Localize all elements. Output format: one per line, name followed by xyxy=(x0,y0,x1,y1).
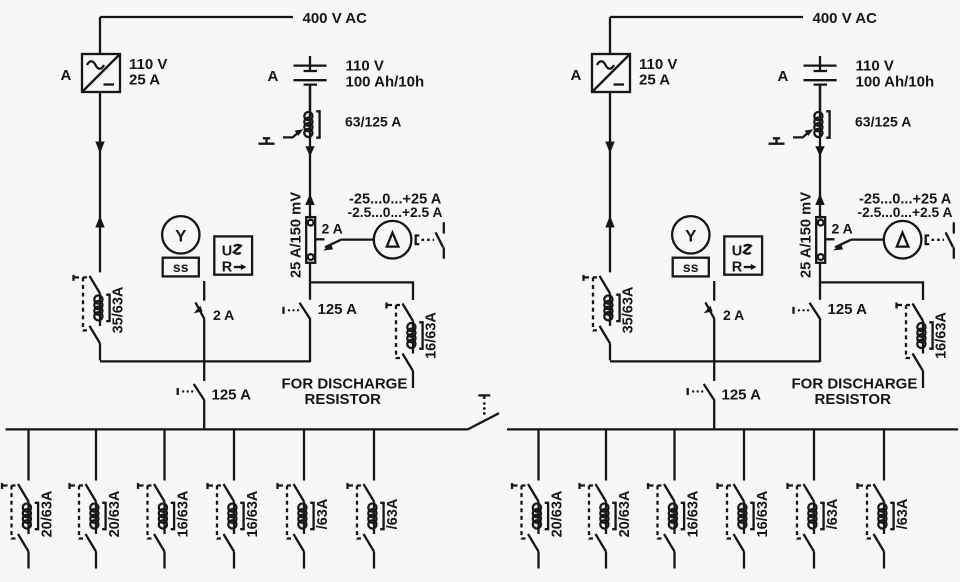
svg-text:125 A: 125 A xyxy=(212,387,252,404)
wire: 2A switch to link (R) xyxy=(713,318,715,362)
svg-text:ss: ss xyxy=(683,259,699,275)
wire: rectifier branch down (L) xyxy=(99,92,101,272)
battery A 110V (L) xyxy=(294,56,327,112)
svg-text:125 A: 125 A xyxy=(318,301,358,318)
wire: tee to discharge resistor branch (R) xyxy=(820,282,923,300)
rectifier charger A (L) xyxy=(82,54,120,92)
svg-text:100 Ah/10h: 100 Ah/10h xyxy=(346,74,425,91)
meter Y (L) xyxy=(162,216,199,253)
svg-text:16/63A: 16/63A xyxy=(424,312,440,359)
svg-text:R: R xyxy=(732,260,743,276)
trip arrow of 63/125A breaker (L) xyxy=(283,129,303,137)
svg-text:-2.5...0...+2.5 A: -2.5...0...+2.5 A xyxy=(858,205,953,220)
relay box U R (R) xyxy=(724,236,762,274)
wire: feeder 1 drop (L) xyxy=(27,429,29,481)
feeder breaker 4 16/63A (L) xyxy=(208,483,244,569)
arrow up above shunt (L) xyxy=(305,194,314,206)
feeder breaker 3 16/63A (R) xyxy=(648,483,684,569)
svg-text:A: A xyxy=(571,67,582,84)
feeder breaker 5 /63A (R) xyxy=(788,483,824,569)
wire: rectifier branch down (R) xyxy=(609,92,611,272)
aux contact at ammeter (L) xyxy=(416,222,444,258)
svg-text:400 V AC: 400 V AC xyxy=(303,10,368,27)
svg-text:/63A: /63A xyxy=(825,498,841,529)
svg-text:63/125 A: 63/125 A xyxy=(855,114,911,130)
svg-text:A: A xyxy=(61,67,72,84)
svg-text:20/63A: 20/63A xyxy=(617,490,633,537)
svg-text:/63A: /63A xyxy=(385,498,401,529)
feeder breaker 1 20/63A (L) xyxy=(2,483,38,569)
svg-text:20/63A: 20/63A xyxy=(40,490,56,537)
busbar left xyxy=(6,428,468,430)
svg-text:2 A: 2 A xyxy=(723,307,744,323)
svg-text:U: U xyxy=(732,244,742,260)
svg-text:R: R xyxy=(222,260,233,276)
circuit breaker 63/125 A (L) xyxy=(304,111,319,137)
svg-text:110 V: 110 V xyxy=(856,58,894,75)
circuit breaker 16/63A discharge (L) xyxy=(387,303,423,389)
wire: 2A switch to link (L) xyxy=(203,318,205,362)
arrow down on rectifier branch (L) xyxy=(95,142,104,154)
wire: horizontal link (R) xyxy=(610,360,820,362)
wire: feeder 4 drop (L) xyxy=(233,429,235,481)
svg-text:Y: Y xyxy=(685,226,697,245)
wire: feeder 5 drop (L) xyxy=(303,429,305,481)
aux contact at ammeter (R) xyxy=(926,222,954,258)
svg-text:25 A: 25 A xyxy=(129,72,160,89)
svg-text:110 V: 110 V xyxy=(639,56,677,73)
feeder breaker 2 20/63A (R) xyxy=(580,483,616,569)
svg-text:110 V: 110 V xyxy=(129,56,167,73)
feeder breaker 2 20/63A (L) xyxy=(70,483,106,569)
feeder breaker 6 /63A (R) xyxy=(858,483,894,569)
wire: battery branch to link (L) xyxy=(309,318,311,362)
wire: tee to discharge resistor branch (L) xyxy=(310,282,413,300)
wire to ammeter (L) xyxy=(341,238,373,240)
circuit breaker 63/125 A (R) xyxy=(814,111,829,137)
svg-text:16/63A: 16/63A xyxy=(934,312,950,359)
feeder breaker 1 20/63A (R) xyxy=(512,483,548,569)
manual handle of 63/125A breaker (L) xyxy=(259,138,275,143)
svg-text:/63A: /63A xyxy=(895,498,911,529)
wire: below shunt (R) xyxy=(819,263,821,300)
arrow up above shunt (R) xyxy=(815,194,824,206)
wire: feeder 3 drop (R) xyxy=(673,429,675,481)
svg-text:2 A: 2 A xyxy=(322,221,343,237)
wire: feeder 1 drop (R) xyxy=(537,429,539,481)
svg-text:2 A: 2 A xyxy=(213,307,234,323)
wire: 400V AC feed top (R) xyxy=(610,17,803,54)
wire: feeder 6 drop (R) xyxy=(883,429,885,481)
wire: relay drop (R) xyxy=(713,281,715,301)
fuse switch 2 A vertical (L) xyxy=(194,302,205,318)
arrow down below 63/125A (L) xyxy=(305,146,314,156)
wire: switch to bus (L) xyxy=(203,400,205,429)
feeder breaker 3 16/63A (L) xyxy=(138,483,174,569)
svg-text:16/63A: 16/63A xyxy=(755,490,771,537)
arrow down below 63/125A (R) xyxy=(815,146,824,156)
wire: battery branch to link (R) xyxy=(819,318,821,362)
wire: feeder 2 drop (L) xyxy=(95,429,97,481)
wire: battery branch down (L) xyxy=(309,84,311,217)
svg-text:16/63A: 16/63A xyxy=(245,490,261,537)
feeder breaker 6 /63A (L) xyxy=(348,483,384,569)
wire: feeder 4 drop (R) xyxy=(743,429,745,481)
arrow down on rectifier branch (R) xyxy=(605,142,614,154)
svg-text:16/63A: 16/63A xyxy=(176,490,192,537)
wire: 400V AC feed top (L) xyxy=(100,17,293,54)
wire: switch to bus (R) xyxy=(713,400,715,429)
svg-text:125 A: 125 A xyxy=(828,301,868,318)
arrow up on rectifier branch (R) xyxy=(605,216,614,228)
shunt 25 A / 150 mV (L) xyxy=(306,217,315,263)
trip arrow of 63/125A breaker (R) xyxy=(793,129,813,137)
circuit breaker 35/63A (R) xyxy=(584,275,620,361)
wire: horizontal link (L) xyxy=(100,360,310,362)
bus tie switch xyxy=(467,413,499,429)
svg-text:20/63A: 20/63A xyxy=(107,490,123,537)
busbar right xyxy=(507,428,958,430)
bus tie handle xyxy=(478,395,490,415)
feeder breaker 4 16/63A (R) xyxy=(718,483,754,569)
manual handle of 63/125A breaker (R) xyxy=(769,138,785,143)
circuit breaker 16/63A discharge (R) xyxy=(897,303,933,389)
svg-text:FOR DISCHARGE: FOR DISCHARGE xyxy=(282,376,408,393)
svg-text:25 A: 25 A xyxy=(639,72,670,89)
circuit breaker 35/63A (L) xyxy=(74,275,110,361)
wire: link to bus switch (L) xyxy=(203,361,205,381)
wire: shunt tap to ammeter (L) xyxy=(315,238,324,240)
ammeter (delta) (L) xyxy=(374,221,412,259)
svg-text:25 A/150 mV: 25 A/150 mV xyxy=(289,192,305,278)
fuse switch 2 A vertical (R) xyxy=(704,302,715,318)
disconnect switch 125 A battery branch (R) xyxy=(794,303,821,319)
svg-text:RESISTOR: RESISTOR xyxy=(815,391,892,408)
wire: feeder 3 drop (L) xyxy=(163,429,165,481)
meter Y (R) xyxy=(672,216,709,253)
wire: battery branch down (R) xyxy=(819,84,821,217)
feeder breaker 5 /63A (L) xyxy=(278,483,314,569)
wire: feeder 2 drop (R) xyxy=(605,429,607,481)
wire: feeder 6 drop (L) xyxy=(373,429,375,481)
svg-text:35/63A: 35/63A xyxy=(111,286,127,333)
svg-text:A: A xyxy=(268,68,279,85)
fuse switch 2 A (shunt tap) (R) xyxy=(833,240,851,251)
wire: relay drop (L) xyxy=(203,281,205,301)
rectifier charger A (R) xyxy=(592,54,630,92)
svg-text:Y: Y xyxy=(175,226,187,245)
svg-text:FOR DISCHARGE: FOR DISCHARGE xyxy=(792,376,918,393)
svg-text:63/125 A: 63/125 A xyxy=(345,114,401,130)
svg-text:16/63A: 16/63A xyxy=(686,490,702,537)
svg-text:RESISTOR: RESISTOR xyxy=(305,391,382,408)
svg-text:25 A/150 mV: 25 A/150 mV xyxy=(799,192,815,278)
box ss (R) xyxy=(673,258,709,277)
svg-text:20/63A: 20/63A xyxy=(550,490,566,537)
ammeter (delta) (R) xyxy=(884,221,922,259)
svg-text:400 V AC: 400 V AC xyxy=(813,10,878,27)
svg-text:A: A xyxy=(778,68,789,85)
disconnect switch 125 A bus infeed (R) xyxy=(688,384,715,400)
svg-text:ss: ss xyxy=(173,259,189,275)
svg-text:2 A: 2 A xyxy=(832,221,853,237)
svg-text:-2.5...0...+2.5 A: -2.5...0...+2.5 A xyxy=(348,205,443,220)
wire: below shunt (L) xyxy=(309,263,311,300)
arrow up on rectifier branch (L) xyxy=(95,216,104,228)
shunt 25 A / 150 mV (R) xyxy=(816,217,825,263)
box ss (L) xyxy=(163,258,199,277)
svg-text:/63A: /63A xyxy=(315,498,331,529)
fuse switch 2 A (shunt tap) (L) xyxy=(323,240,341,251)
wire: link to bus switch (R) xyxy=(713,361,715,381)
svg-text:125 A: 125 A xyxy=(722,387,762,404)
disconnect switch 125 A bus infeed (L) xyxy=(178,384,205,400)
wire: shunt tap to ammeter (R) xyxy=(825,238,834,240)
svg-text:110 V: 110 V xyxy=(346,58,384,75)
wire: feeder 5 drop (R) xyxy=(813,429,815,481)
svg-text:100 Ah/10h: 100 Ah/10h xyxy=(856,74,935,91)
svg-text:35/63A: 35/63A xyxy=(621,286,637,333)
relay box U R (L) xyxy=(214,236,252,274)
battery A 110V (R) xyxy=(804,56,837,112)
disconnect switch 125 A battery branch (L) xyxy=(284,303,311,319)
wire to ammeter (R) xyxy=(851,238,883,240)
svg-text:U: U xyxy=(222,244,232,260)
